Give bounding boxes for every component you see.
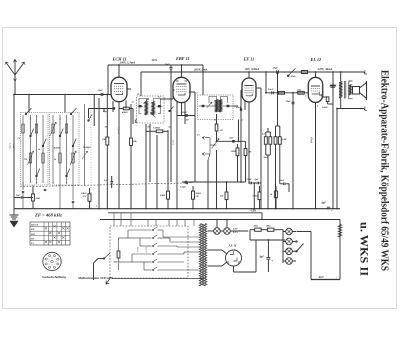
- svg-text:125 V: 125 V: [145, 247, 147, 253]
- wire tuner col A3: [36, 115, 38, 183]
- wire IFT2 link: [199, 105, 215, 107]
- svg-text:10nF: 10nF: [286, 100, 292, 103]
- svg-text:7: 7: [54, 259, 55, 261]
- wire EL12 grid line: [266, 92, 308, 94]
- wire IFT2 cold end: [238, 120, 240, 142]
- svg-text:50pF: 50pF: [165, 63, 171, 66]
- wire EL12 anode: [315, 72, 317, 77]
- svg-text:30V, 0,8mA: 30V, 0,8mA: [244, 67, 259, 71]
- wire lamps right: [292, 231, 296, 233]
- tube socket diagram: [43, 252, 61, 270]
- wire 40ohm chain: [261, 229, 267, 231]
- wire osc vertical: [130, 104, 132, 124]
- wire lamp switch out: [297, 231, 304, 233]
- svg-text:40Ω: 40Ω: [265, 224, 270, 227]
- resistor screen a: [264, 137, 267, 145]
- wire tuner col B1: [52, 115, 54, 183]
- AZ1 internals: [230, 254, 234, 256]
- trimmer cap a: [22, 190, 24, 192]
- pilot lamp 2: [224, 228, 231, 235]
- wire speaker return: [336, 109, 338, 209]
- wire tuner feeds: [28, 95, 30, 113]
- speaker cone: [360, 83, 367, 99]
- capacitor coupling EL12: [271, 91, 273, 94]
- coil B2: [59, 153, 61, 163]
- svg-text:0,1: 0,1: [158, 97, 161, 99]
- EBF11 electrodes: [177, 83, 187, 85]
- svg-text:2mA: 2mA: [171, 140, 174, 145]
- TA jack upper: [203, 136, 206, 140]
- svg-text:50pF: 50pF: [98, 89, 104, 92]
- svg-text:8µF: 8µF: [230, 136, 235, 139]
- switch table: [30, 222, 70, 245]
- resistor R-ant 5k: [32, 194, 35, 201]
- wire tuner col B2: [59, 115, 61, 183]
- svg-text:8: 8: [55, 261, 56, 263]
- resistor 40ohm b: [267, 228, 274, 231]
- wire EF11 anode: [248, 72, 250, 78]
- speaker magnet: [353, 87, 360, 95]
- wire tuner col B4: [72, 115, 74, 183]
- svg-text:10µF: 10µF: [273, 67, 279, 70]
- wire rail B left corner: [140, 72, 142, 96]
- svg-text:5MΩ: 5MΩ: [253, 196, 258, 198]
- wire below tuner: [14, 197, 21, 199]
- capacitor 8uF electrolytic bus: [327, 206, 330, 208]
- wire ECH11 pins down: [112, 101, 114, 112]
- wire right drop: [339, 220, 341, 280]
- svg-text:20Ω: 20Ω: [113, 262, 118, 264]
- svg-text:2: 2: [51, 265, 52, 267]
- capacitor 50nF coupling: [283, 183, 285, 186]
- wire padder branch: [88, 109, 90, 119]
- junction dots bus: [98, 208, 99, 209]
- svg-text:5kΩ: 5kΩ: [36, 197, 40, 200]
- tube EBF11: [173, 77, 190, 102]
- resistor screen b: [269, 137, 272, 145]
- capacitor C-grid 50pF: [101, 93, 104, 95]
- wire chassis bus: [14, 208, 340, 210]
- svg-text:45mA: 45mA: [310, 137, 313, 143]
- IFT2 cap b: [227, 105, 230, 107]
- IFT1 cap b: [158, 105, 161, 107]
- svg-text:0,1µF: 0,1µF: [180, 186, 186, 189]
- resistor 45k: [225, 192, 228, 200]
- svg-text:445v: 445v: [151, 59, 158, 62]
- wire EBF diode out: [189, 91, 195, 93]
- IFT2 cap a: [202, 105, 205, 107]
- svg-text:1,5kΩ: 1,5kΩ: [9, 143, 11, 149]
- ECH11 grid leads: [108, 94, 111, 96]
- svg-text:u. WKS II: u. WKS II: [358, 222, 370, 277]
- svg-text:U-Werk: U-Werk: [289, 76, 297, 78]
- wire IFT2 bottom lead: [216, 114, 218, 122]
- volume potentiometer 1M: [215, 124, 218, 131]
- wire AZ1 leads: [208, 249, 223, 251]
- coil A1: [22, 124, 24, 133]
- resistor grid stopper: [298, 91, 305, 94]
- IFT2 trimmer arrow: [207, 102, 213, 108]
- svg-text:750: 750: [24, 159, 27, 161]
- wire bottom right return: [311, 279, 340, 281]
- svg-text:EL 12: EL 12: [310, 57, 323, 62]
- svg-text:7,5mA: 7,5mA: [117, 128, 120, 135]
- band-switch coil box B: [50, 113, 80, 186]
- wire EBF cathode bypass: [177, 115, 195, 117]
- wire 40ohm feed: [250, 229, 255, 231]
- wire IFT1 to EBF11 grid: [160, 98, 173, 100]
- resistor rail 2k: [301, 71, 307, 74]
- tube EL12: [308, 77, 322, 102]
- wire mains lead: [94, 259, 99, 264]
- wire bus minus12: [108, 212, 262, 214]
- capacitor EF11 cath: [239, 108, 241, 111]
- svg-text:750Ω: 750Ω: [12, 143, 14, 148]
- svg-text:C8: C8: [18, 138, 20, 140]
- mains switch: [103, 258, 104, 259]
- resistor 0.1M h: [156, 130, 163, 133]
- IFT1 coil b: [152, 102, 154, 116]
- output transformer core: [343, 81, 345, 99]
- svg-text:Sockelschaltung: Sockelschaltung: [42, 276, 67, 279]
- pot wiper arrow: [212, 139, 220, 149]
- wire ECH11 anode: [118, 65, 120, 77]
- svg-text:1M: 1M: [220, 130, 223, 132]
- svg-text:2k: 2k: [53, 159, 56, 161]
- resistor NTC zigzag: [338, 225, 341, 238]
- wire rect output: [250, 239, 285, 241]
- capacitor 0.1uF kath: [110, 181, 113, 183]
- ground: [10, 209, 19, 219]
- svg-text:8µF: 8µF: [322, 202, 327, 205]
- svg-text:110 V: 110 V: [136, 247, 138, 253]
- wire lamp drops: [216, 220, 218, 228]
- tube ECH11: [111, 77, 127, 102]
- svg-text:5nF: 5nF: [16, 194, 21, 197]
- resistor 1k: [275, 191, 278, 198]
- trimmer cap b: [44, 188, 46, 190]
- svg-text:1MΩ: 1MΩ: [160, 194, 165, 197]
- coil A4: [42, 153, 44, 163]
- svg-text:200V, 1,5mA: 200V, 1,5mA: [119, 61, 136, 65]
- svg-text:200V, 2mA: 200V, 2mA: [193, 67, 207, 71]
- IFT2 coil a: [215, 100, 217, 113]
- capacitor 50uF cathode: [185, 114, 188, 116]
- capacitor rail interstage: [170, 67, 173, 69]
- coil B1: [52, 124, 54, 133]
- IFT2 coil b: [219, 100, 221, 113]
- antenna: [6, 60, 24, 76]
- capacitor 10nF: [292, 101, 295, 103]
- coil A2: [29, 153, 31, 163]
- resistor 1M det: [236, 148, 239, 156]
- svg-text:50: 50: [137, 94, 139, 96]
- wire primary taps: [188, 269, 199, 271]
- resistor 1M agc: [106, 137, 109, 145]
- wire EBF11 pins down: [176, 102, 178, 209]
- wire 10nF branch: [292, 93, 294, 209]
- wire anode loads: [275, 126, 277, 137]
- svg-text:50: 50: [214, 120, 216, 122]
- scale lamp 2: [286, 238, 293, 245]
- transformer primary winding: [199, 224, 202, 287]
- wire electrolytic drop: [332, 72, 334, 209]
- svg-text:1MΩ: 1MΩ: [231, 150, 236, 153]
- IFT1 trimmer arrow b: [151, 113, 156, 118]
- IFT1 inner loop b: [153, 99, 160, 114]
- transformer core lines: [202, 224, 204, 286]
- wire bus heater: [100, 219, 340, 221]
- output transformer primary: [339, 82, 342, 99]
- svg-text:6: 6: [52, 257, 53, 259]
- svg-text:2: 2: [316, 106, 318, 108]
- resistor 20k 1W: [88, 194, 91, 202]
- svg-text:AGV: AGV: [318, 276, 325, 279]
- IFT2 inner loop a: [209, 97, 217, 104]
- wire IFT2 to detector: [232, 105, 239, 107]
- svg-text:50nF: 50nF: [236, 106, 242, 109]
- wire heater continue: [230, 230, 248, 232]
- wire tuner col A1: [22, 115, 24, 183]
- resistor 1M det b: [244, 148, 247, 155]
- pilot lamp 1: [214, 228, 221, 235]
- svg-text:40-4300: 40-4300: [53, 147, 61, 150]
- svg-text:50nF: 50nF: [264, 157, 269, 159]
- resistor grid leak: [279, 91, 285, 94]
- svg-text:1: 1: [54, 264, 55, 266]
- capacitor 8uF psu: [266, 256, 270, 258]
- IFT1 inner loop a: [139, 99, 146, 114]
- wire EL12 pins: [315, 103, 317, 209]
- wire selector staircase: [118, 238, 120, 251]
- capacitor on rail: [276, 70, 278, 73]
- svg-text:AZ 1f: AZ 1f: [228, 244, 237, 248]
- IF transformer 2 box: [198, 95, 234, 120]
- switch on rail: [287, 75, 288, 76]
- wire anode load drop: [277, 72, 279, 126]
- tube EF11: [242, 78, 256, 102]
- wire EBF11 anode to rail: [181, 65, 183, 77]
- wire selector outputs: [158, 229, 164, 231]
- resistor 40ohm a: [255, 228, 262, 231]
- wire EF11 screen: [256, 87, 261, 89]
- rectifier AZ1f: [226, 250, 242, 266]
- capacitor 50nF det b: [256, 182, 258, 185]
- IFT1 cap a: [139, 105, 142, 107]
- wire EF11 pins: [248, 102, 250, 183]
- chassis dotted line: [90, 112, 92, 208]
- wire det out: [217, 140, 246, 142]
- svg-text:6µF: 6µF: [255, 178, 260, 181]
- wire antenna to mixer grid: [14, 94, 108, 96]
- resistor 20k 1W b: [192, 191, 195, 199]
- wire lamps left: [282, 230, 284, 264]
- svg-text:50µF: 50µF: [182, 112, 188, 114]
- svg-text:ZF = 468 kHz: ZF = 468 kHz: [34, 213, 63, 218]
- svg-text:0,1MΩ: 0,1MΩ: [153, 127, 160, 130]
- resistor 5M: [258, 192, 261, 200]
- wire heater from transformer: [208, 230, 214, 232]
- wire selector bus out: [163, 236, 199, 238]
- wire to EF11 grid: [240, 90, 242, 182]
- EF11 electrodes: [245, 85, 254, 87]
- output transformer secondary loop: [349, 81, 353, 99]
- resistor 50k: [130, 138, 133, 146]
- svg-text:160Ω: 160Ω: [322, 106, 328, 109]
- switch A2: [30, 115, 32, 183]
- IFT1 trimmer arrow a: [144, 99, 149, 104]
- svg-text:3A: 3A: [131, 101, 135, 104]
- svg-text:50nF: 50nF: [268, 88, 274, 91]
- wire HT rail A: [108, 64, 203, 66]
- capacitor electrolytic plate: [330, 85, 336, 87]
- wire misc verticals: [145, 131, 147, 208]
- wire screen divider: [260, 88, 262, 209]
- wire transformer box drops: [113, 213, 115, 226]
- terminal top: [364, 70, 367, 74]
- svg-text:4: 4: [48, 261, 49, 263]
- resistor anode load b: [278, 137, 281, 145]
- transformer secondary winding: [204, 224, 207, 287]
- wire rail A left corner: [107, 65, 109, 95]
- wire rail A right drop to IFT2: [202, 65, 204, 95]
- tuner junction dots: [22, 182, 23, 183]
- svg-text:Elektro-Apparate-Fabrik, Köppe: Elektro-Apparate-Fabrik, Köppelsdorf 65/…: [379, 70, 390, 271]
- svg-text:20kΩ: 20kΩ: [195, 193, 201, 195]
- ECH11 electrodes: [114, 83, 124, 85]
- IF transformer 1 box: [137, 96, 165, 123]
- wire tuner col A4: [42, 115, 44, 183]
- capacitor 25uF det a: [249, 182, 251, 185]
- EL12 electrodes: [311, 85, 320, 87]
- wire IFT1 link: [138, 105, 144, 107]
- svg-text:5k: 5k: [38, 149, 40, 151]
- wire screen rail B: [141, 71, 364, 73]
- wire transformer bottom: [340, 98, 342, 109]
- wire TA links: [205, 137, 210, 139]
- wire grid coupling verticals: [93, 95, 95, 127]
- resistor EL12 cathode: [326, 97, 329, 102]
- svg-text:EF 11: EF 11: [243, 57, 255, 62]
- wire IFT1 exit curl: [135, 119, 137, 123]
- svg-text:Meßinstrument 3333 Ω/V: Meßinstrument 3333 Ω/V: [77, 277, 115, 280]
- wire antenna down-lead: [14, 75, 16, 95]
- power transformer box: [110, 226, 188, 278]
- capacitor grid EF11: [184, 181, 186, 184]
- capacitor 8uF coupling: [232, 140, 235, 142]
- svg-text:5: 5: [96, 206, 97, 208]
- svg-text:245V, 36mA: 245V, 36mA: [317, 67, 333, 71]
- svg-text:EBF 11: EBF 11: [175, 56, 190, 61]
- IFT2 inner loop b: [220, 97, 227, 104]
- scale lamp 1: [286, 228, 293, 235]
- capacitor ECH cathode: [112, 107, 115, 109]
- svg-text:20-430pF: 20-430pF: [82, 146, 92, 149]
- resistor anode load a: [274, 137, 277, 145]
- svg-text:Bereich: Bereich: [30, 225, 39, 227]
- switch S-ant a: [25, 113, 26, 114]
- svg-text:2: 2: [241, 120, 243, 122]
- variable capacitor line: [84, 104, 86, 185]
- terminal bottom: [337, 108, 364, 110]
- svg-text:0,1: 0,1: [169, 127, 172, 129]
- TA jack lower: [203, 152, 206, 156]
- svg-text:1M: 1M: [105, 127, 108, 129]
- wire EF11 grid line: [237, 156, 239, 182]
- AVC dashed line: [20, 183, 193, 187]
- mains dropper resistor: [117, 251, 120, 258]
- svg-text:3: 3: [49, 264, 50, 266]
- capacitor 5nF: [20, 196, 22, 199]
- resistor ECH 400ohm: [123, 107, 129, 110]
- EBF11 diode plates: [176, 80, 179, 82]
- IFT1 coil a: [145, 102, 147, 116]
- resistor 1M bleed: [167, 191, 170, 199]
- mains entry arrow: [106, 277, 111, 284]
- switch AVC tag: [169, 110, 170, 111]
- wire tuner bottom exits: [22, 183, 24, 190]
- band-switch coil box A: [21, 113, 49, 186]
- switch padder: [88, 120, 89, 121]
- svg-text:5: 5: [49, 259, 50, 261]
- svg-text:400Ω: 400Ω: [121, 111, 128, 114]
- svg-text:25: 25: [147, 127, 150, 129]
- svg-text:2: 2: [196, 93, 198, 95]
- coil B4: [72, 153, 74, 163]
- scale lamp 4: [286, 258, 293, 265]
- coil A3: [35, 124, 37, 133]
- svg-text:1kΩ: 1kΩ: [297, 88, 301, 91]
- svg-text:−12V: −12V: [250, 209, 257, 213]
- svg-text:1M: 1M: [248, 152, 251, 154]
- wire tuner col B3: [66, 115, 68, 183]
- svg-text:8µF: 8µF: [260, 256, 265, 259]
- svg-text:40Ω: 40Ω: [253, 224, 258, 227]
- wire box bottom mains: [112, 278, 206, 280]
- lamp selector switch: [296, 241, 297, 242]
- wire screen drop EL12: [265, 72, 267, 93]
- scale lamp 3: [286, 248, 293, 255]
- table x marks: [45, 227, 47, 229]
- coil B3: [65, 124, 67, 133]
- wire det caps: [248, 182, 250, 184]
- wire EL12 cathode: [319, 94, 322, 96]
- svg-text:5: 5: [305, 96, 306, 98]
- switch S-ant b: [70, 113, 71, 114]
- selector contacts: [152, 229, 154, 231]
- svg-text:0,1: 0,1: [104, 179, 107, 182]
- capacitor ebf k: [185, 181, 188, 183]
- trimmer cap c: [72, 200, 74, 202]
